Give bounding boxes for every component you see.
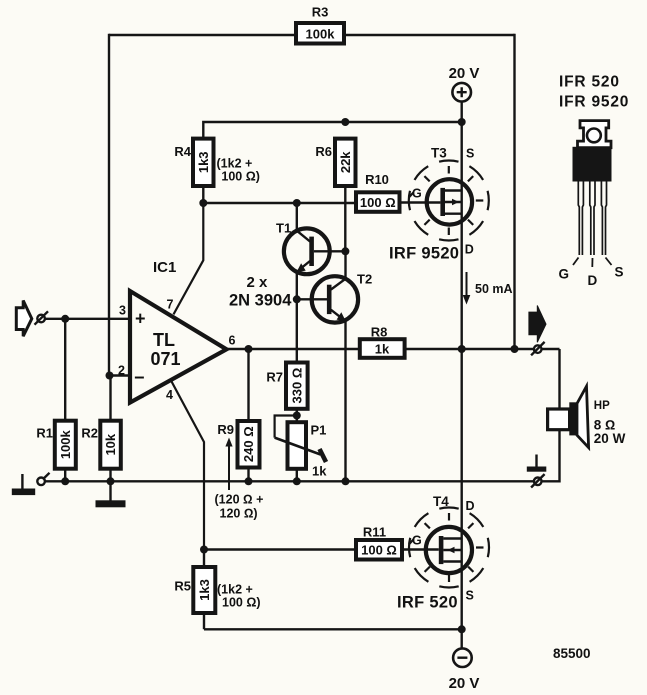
wire R1 vertical xyxy=(64,319,66,482)
resistor R7 xyxy=(266,363,307,409)
svg-text:T3: T3 xyxy=(431,146,447,161)
pin G label T4 xyxy=(412,534,422,548)
wire R2 vertical xyxy=(109,376,111,482)
value note R5 xyxy=(217,583,261,610)
svg-text:6: 6 xyxy=(229,334,236,348)
svg-text:20 V: 20 V xyxy=(449,65,480,82)
svg-text:(1k2 +: (1k2 + xyxy=(217,583,253,597)
wire output line y349 xyxy=(227,348,560,350)
svg-text:R3: R3 xyxy=(312,5,329,20)
wire feedback left vertical xyxy=(108,34,110,376)
pin 7 label xyxy=(167,298,174,312)
svg-text:G: G xyxy=(412,534,422,548)
node R7 P1 junction xyxy=(293,412,301,420)
transistor T4 IRF520 xyxy=(402,494,489,587)
pin 6 label xyxy=(229,334,236,348)
output connector bottom xyxy=(531,474,545,487)
value label IRF 520 xyxy=(397,594,458,612)
output arrow xyxy=(529,306,546,343)
svg-text:100 Ω): 100 Ω) xyxy=(221,170,260,184)
value note R9 xyxy=(215,493,264,521)
potentiometer P1 xyxy=(275,422,328,478)
svg-text:R5: R5 xyxy=(174,579,191,594)
arrow R9 note xyxy=(225,438,232,491)
svg-text:−: − xyxy=(134,368,145,388)
node T1 collector tap xyxy=(293,199,301,207)
svg-text:85500: 85500 xyxy=(553,646,591,661)
wire supply plus drop xyxy=(461,101,463,122)
svg-text:3: 3 xyxy=(119,304,126,318)
wire R7 bottom to P1 xyxy=(296,409,298,422)
pin D label T3 xyxy=(465,243,474,257)
wire T1 emitter drop xyxy=(296,272,298,300)
svg-text:22k: 22k xyxy=(338,151,353,173)
svg-text:100k: 100k xyxy=(306,27,336,42)
svg-text:120 Ω): 120 Ω) xyxy=(220,507,258,521)
svg-text:S: S xyxy=(466,589,474,603)
svg-text:D: D xyxy=(466,499,475,513)
wire P1 wiper link xyxy=(275,416,297,438)
wire gate line y549 xyxy=(204,548,357,550)
pin S label T4 xyxy=(466,589,474,603)
resistor R8 xyxy=(360,324,405,357)
svg-text:R1: R1 xyxy=(36,426,53,441)
resistor R10 xyxy=(356,172,400,212)
wire bias chain to R7 xyxy=(296,299,298,362)
svg-text:4: 4 xyxy=(166,388,173,402)
wire R6 bottom to T1 base xyxy=(344,186,346,251)
wire P1 bottom lead xyxy=(296,469,298,482)
node output MOSFET rail xyxy=(458,345,466,353)
value note R4 xyxy=(217,157,260,184)
svg-text:7: 7 xyxy=(167,298,174,312)
svg-text:1k: 1k xyxy=(375,341,390,356)
node negative rail supply xyxy=(458,625,466,633)
svg-text:IFR 9520: IFR 9520 xyxy=(559,94,629,111)
wire T3 source drain vertical xyxy=(461,122,463,349)
wire T2 collector riser xyxy=(344,251,346,278)
speaker HP xyxy=(548,386,626,447)
svg-text:G: G xyxy=(412,187,422,201)
svg-text:20 V: 20 V xyxy=(449,675,480,692)
svg-text:D: D xyxy=(465,243,474,257)
svg-text:(1k2 +: (1k2 + xyxy=(217,157,253,171)
svg-text:HP: HP xyxy=(594,400,610,412)
pin G label T3 xyxy=(412,187,422,201)
svg-text:20 W: 20 W xyxy=(594,431,626,446)
svg-text:G: G xyxy=(559,267,570,282)
wire pin4 link xyxy=(171,381,204,550)
svg-text:1k3: 1k3 xyxy=(197,579,212,601)
wire feedback top horizontal xyxy=(109,34,515,36)
power -20V terminal xyxy=(449,648,480,692)
pin 2 label xyxy=(118,364,125,378)
wire R9 vertical xyxy=(247,349,249,481)
svg-text:071: 071 xyxy=(151,349,181,369)
package drawing IFR520 IFR9520 xyxy=(559,74,630,289)
ground near speaker xyxy=(527,455,547,472)
input connector top xyxy=(35,311,49,324)
wire ground bus xyxy=(46,480,535,482)
svg-text:R10: R10 xyxy=(365,172,389,187)
node R2 ground xyxy=(107,477,115,485)
svg-text:+: + xyxy=(135,309,146,329)
value label IRF 9520 xyxy=(389,245,459,263)
svg-text:100 Ω: 100 Ω xyxy=(361,543,397,558)
resistor R3 xyxy=(296,5,344,44)
resistor R9 xyxy=(217,421,259,468)
input connector bottom xyxy=(37,473,49,485)
svg-text:100k: 100k xyxy=(58,429,73,459)
svg-text:2N 3904: 2N 3904 xyxy=(229,292,292,310)
svg-text:100 Ω): 100 Ω) xyxy=(222,596,261,610)
node R9 ground xyxy=(245,477,253,485)
wire T2 emitter drop to ground xyxy=(344,321,346,482)
pin 4 label xyxy=(166,388,173,402)
pin 3 label xyxy=(119,304,126,318)
svg-text:10k: 10k xyxy=(103,433,118,455)
op-amp IC1 TL071 xyxy=(130,259,227,403)
node T2 emitter ground xyxy=(342,477,350,485)
node R4 bottom xyxy=(199,199,207,207)
pin S label T3 xyxy=(466,147,474,161)
wire bias line y203 xyxy=(203,202,357,204)
svg-text:R8: R8 xyxy=(371,324,388,339)
svg-text:T2: T2 xyxy=(357,272,372,287)
wire positive rail y122 xyxy=(203,122,461,203)
svg-text:IRF 9520: IRF 9520 xyxy=(389,245,459,263)
wire speaker bottom xyxy=(534,429,560,482)
svg-text:P1: P1 xyxy=(311,423,327,438)
svg-text:1k: 1k xyxy=(312,464,327,479)
ground under R2 xyxy=(96,481,126,507)
svg-text:IRF 520: IRF 520 xyxy=(397,594,458,612)
wire T1 collector drop xyxy=(296,203,298,231)
wire speaker top xyxy=(558,349,560,408)
svg-text:50 mA: 50 mA xyxy=(475,282,513,296)
svg-text:IFR 520: IFR 520 xyxy=(559,74,620,91)
transistor T2 xyxy=(297,272,372,323)
svg-text:R11: R11 xyxy=(363,525,386,540)
wire feedback right vertical xyxy=(513,34,515,349)
wire supply minus drop xyxy=(461,629,463,648)
svg-text:2 x: 2 x xyxy=(247,274,269,291)
output connector top xyxy=(531,342,545,355)
wire negative rail y629 xyxy=(204,628,462,630)
svg-text:R6: R6 xyxy=(315,144,332,159)
svg-text:R2: R2 xyxy=(81,426,98,441)
wire pin2 xyxy=(109,374,130,376)
resistor R6 xyxy=(315,139,355,186)
svg-text:330 Ω: 330 Ω xyxy=(289,368,304,404)
ground input left xyxy=(12,474,35,495)
pin D label T4 xyxy=(466,499,475,513)
node negative gate line junction xyxy=(200,546,208,554)
svg-text:S: S xyxy=(466,147,474,161)
label 2x 2N3904 xyxy=(229,274,292,310)
svg-text:T4: T4 xyxy=(433,494,449,509)
transistor T1 xyxy=(276,221,345,275)
svg-text:(120 Ω +: (120 Ω + xyxy=(215,493,264,507)
node rail R6 xyxy=(341,118,349,126)
svg-text:S: S xyxy=(615,265,624,280)
wire input to pin3 xyxy=(45,318,131,320)
svg-text:1k3: 1k3 xyxy=(196,151,211,173)
svg-text:R9: R9 xyxy=(217,422,234,437)
node input R1 junction xyxy=(61,315,69,323)
node R9 top xyxy=(245,345,253,353)
label 85500 xyxy=(553,646,591,661)
resistor R1 xyxy=(36,421,75,469)
svg-text:240 Ω: 240 Ω xyxy=(241,426,256,462)
wire pin7 link xyxy=(174,203,204,314)
power +20V terminal xyxy=(449,65,480,101)
resistor R2 xyxy=(81,421,120,469)
svg-text:2: 2 xyxy=(118,364,125,378)
arrow 50 mA xyxy=(463,272,513,305)
resistor R4 xyxy=(174,139,213,186)
transistor T3 IRF9520 xyxy=(400,146,489,241)
node P1 ground xyxy=(293,477,301,485)
node pin2 junction xyxy=(106,372,114,380)
resistor R11 xyxy=(356,525,402,560)
node T2 base junction xyxy=(293,295,301,303)
node R1 ground xyxy=(61,477,69,485)
svg-text:R7: R7 xyxy=(266,370,283,385)
svg-text:IC1: IC1 xyxy=(153,259,176,276)
svg-text:T1: T1 xyxy=(276,221,291,236)
wire T4 drain source vertical xyxy=(461,349,463,629)
svg-text:TL: TL xyxy=(153,330,175,350)
node output feedback tap xyxy=(511,345,519,353)
wire R5 vertical xyxy=(203,550,205,630)
node T1 base junction xyxy=(341,247,349,255)
svg-text:D: D xyxy=(588,273,598,288)
node rail supply xyxy=(458,118,466,126)
input arrow xyxy=(16,301,32,337)
resistor R5 xyxy=(174,567,215,613)
svg-text:100 Ω: 100 Ω xyxy=(360,195,396,210)
svg-text:R4: R4 xyxy=(174,144,191,159)
